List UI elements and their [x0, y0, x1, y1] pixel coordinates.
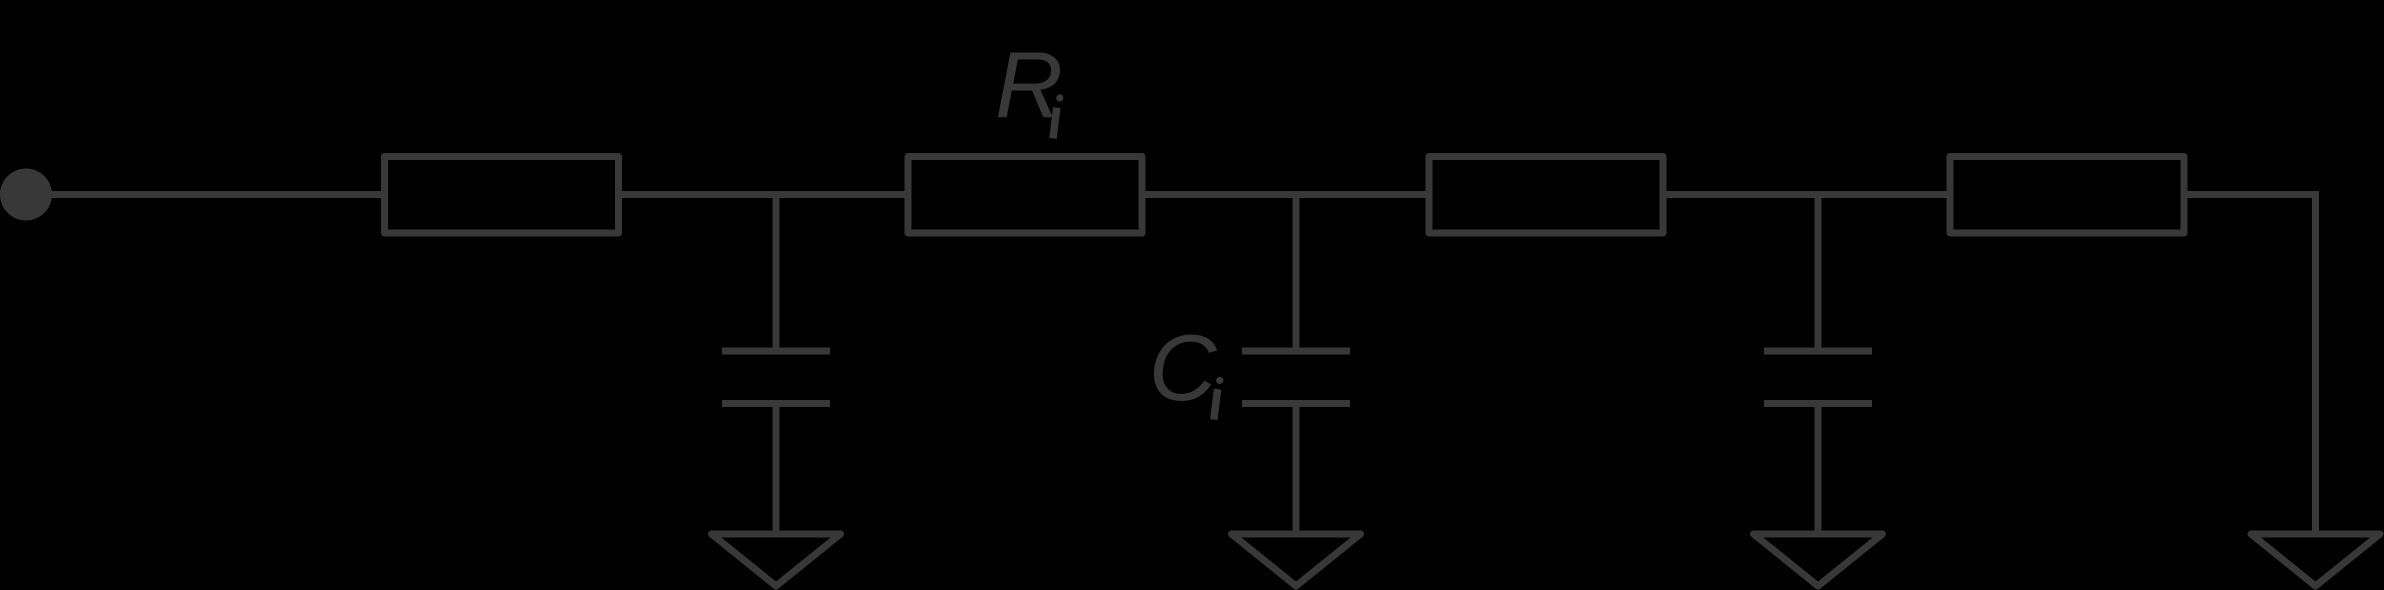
- wire node3 to C3: [1815, 195, 1822, 352]
- wire R3 to R4: [1663, 191, 1950, 198]
- wire R1 to R2: [619, 191, 908, 198]
- resistor R4: [1950, 157, 2184, 234]
- resistor R1: [385, 157, 619, 234]
- capacitor C1: [722, 348, 830, 355]
- ground G2: [1232, 534, 1361, 586]
- wire R4 to output drop: [2184, 195, 2316, 535]
- wire input to R1: [26, 191, 384, 198]
- ground G4 output: [2251, 534, 2380, 586]
- wire C1 to ground: [773, 404, 780, 535]
- wire R2 to R3: [1142, 191, 1429, 198]
- node input terminal: [0, 169, 52, 221]
- ground G3: [1754, 534, 1883, 586]
- resistor R3: [1429, 157, 1663, 234]
- capacitor C3: [1764, 348, 1872, 355]
- label Ri: [995, 33, 1063, 139]
- wire node2 to C2: [1293, 195, 1300, 352]
- wire C2 to ground: [1293, 404, 1300, 535]
- resistor R2 value Ri: [908, 157, 1142, 234]
- ground G1: [712, 534, 841, 586]
- wire node1 to C1: [773, 195, 780, 352]
- wire C3 to ground: [1815, 404, 1822, 535]
- svg-text:C: C: [1149, 315, 1218, 420]
- capacitor C2 value Ci: [1242, 348, 1350, 355]
- label Ci: [1149, 315, 1224, 420]
